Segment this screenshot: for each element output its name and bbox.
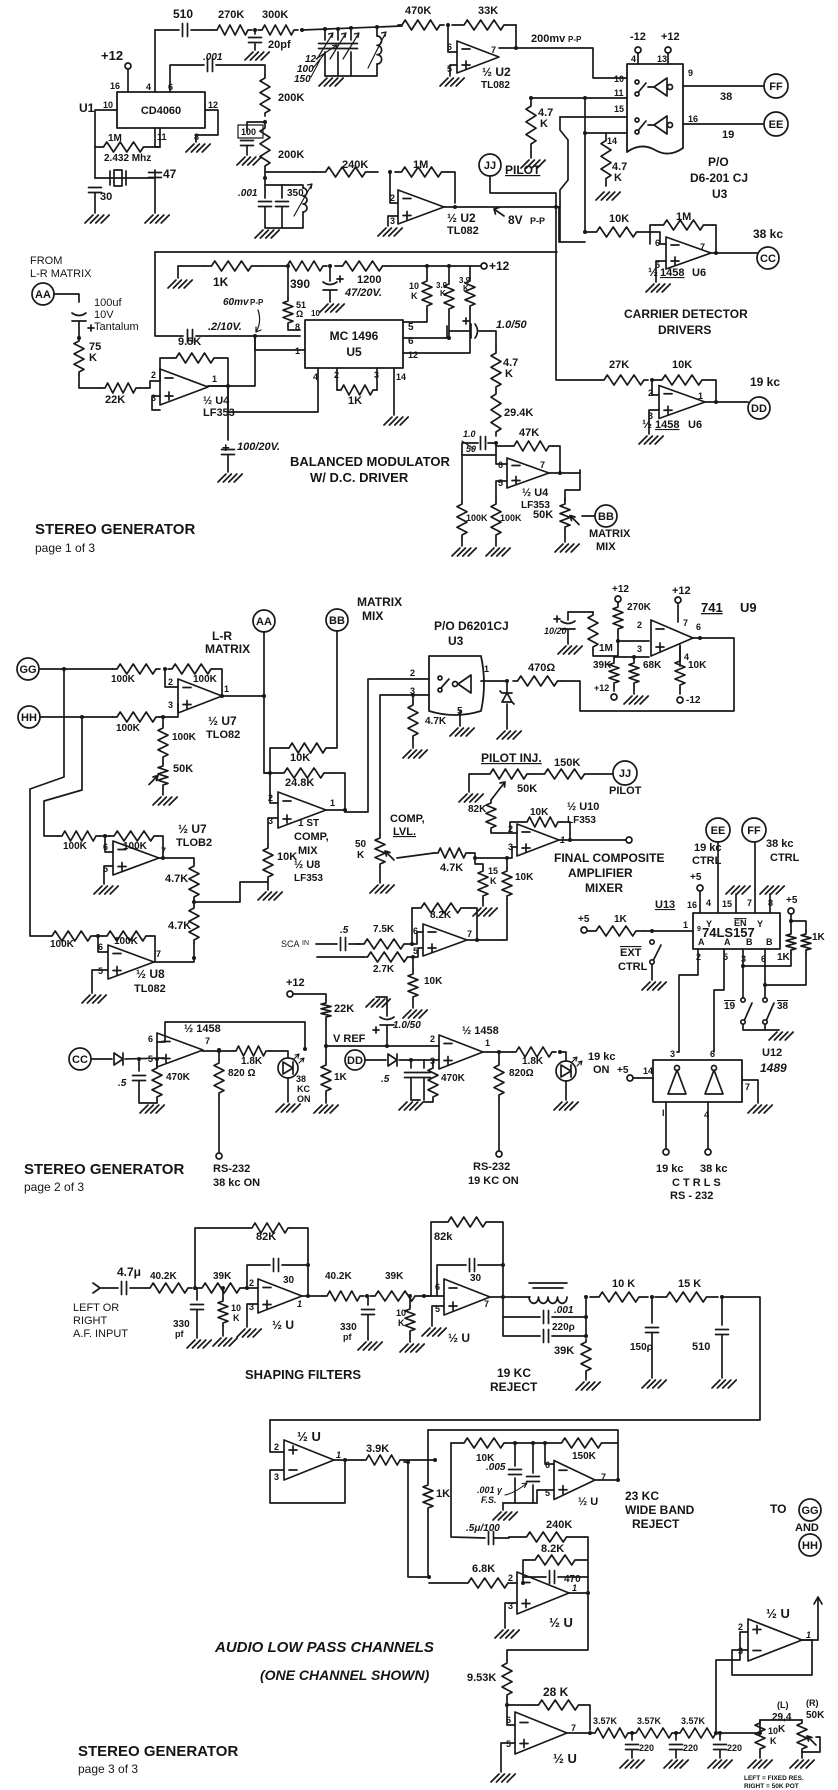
svg-text:6.8K: 6.8K <box>472 1563 495 1575</box>
svg-text:4: 4 <box>631 54 636 64</box>
trimmer inductor <box>303 188 307 212</box>
svg-text:U6: U6 <box>688 419 702 431</box>
wire B6 down <box>764 949 766 998</box>
svg-text:½: ½ <box>648 265 658 279</box>
svg-text:29.4K: 29.4K <box>504 407 533 419</box>
node <box>286 264 290 268</box>
node <box>217 1049 221 1053</box>
svg-text:40.2K: 40.2K <box>325 1271 352 1282</box>
svg-text:1.8K: 1.8K <box>241 1056 263 1067</box>
svg-text:P-P: P-P <box>568 35 582 44</box>
wire <box>705 401 748 403</box>
node <box>674 1731 678 1735</box>
node <box>77 336 81 340</box>
wire <box>461 455 463 501</box>
ground <box>145 215 169 223</box>
svg-text:47K: 47K <box>519 427 539 439</box>
resistor 150K <box>545 1438 618 1448</box>
wire <box>712 380 716 402</box>
resistor 3.57K <box>632 1728 676 1738</box>
node <box>300 28 304 32</box>
resistor 10K <box>422 278 432 309</box>
wire <box>160 704 178 717</box>
node <box>263 176 267 180</box>
capacitor .5 <box>133 1076 146 1081</box>
wire <box>282 212 303 228</box>
svg-text:200K: 200K <box>278 149 304 161</box>
wire <box>379 867 381 883</box>
svg-text:page 3 of 3: page 3 of 3 <box>78 1762 138 1776</box>
wire <box>498 1052 500 1062</box>
svg-text:page 1 of 3: page 1 of 3 <box>35 541 95 555</box>
svg-text:MATRIX: MATRIX <box>205 642 250 656</box>
svg-text:38 kc: 38 kc <box>753 227 783 241</box>
wire pin5 <box>403 309 427 322</box>
svg-text:15 K: 15 K <box>678 1278 701 1290</box>
svg-text:½ U: ½ U <box>549 1615 573 1630</box>
wire <box>265 185 282 198</box>
node <box>80 715 84 719</box>
wire <box>150 936 155 962</box>
svg-text:15: 15 <box>488 866 498 876</box>
svg-text:BB: BB <box>329 615 345 627</box>
wire wiper <box>397 853 434 858</box>
svg-text:1: 1 <box>224 684 229 694</box>
inductor <box>529 1297 567 1303</box>
svg-text:Ω: Ω <box>296 309 303 319</box>
svg-text:1: 1 <box>330 798 335 808</box>
svg-text:4.7K: 4.7K <box>440 862 463 874</box>
svg-text:2: 2 <box>168 677 173 687</box>
node <box>521 1581 525 1585</box>
node <box>497 1050 501 1054</box>
op-amp U10a <box>517 824 559 856</box>
terminal -12 <box>677 697 683 703</box>
wire <box>156 1059 158 1065</box>
resistor 820 <box>494 1062 504 1098</box>
capacitor 100uf tantalum <box>72 313 86 321</box>
svg-text:10K: 10K <box>515 872 534 883</box>
wire <box>579 470 581 473</box>
svg-text:4.7K: 4.7K <box>168 920 191 932</box>
svg-text:7.5K: 7.5K <box>373 924 395 935</box>
capacitor 20pf <box>249 38 262 43</box>
node <box>137 1057 141 1061</box>
svg-text:2.7K: 2.7K <box>373 964 395 975</box>
svg-text:K: K <box>778 1724 786 1735</box>
node <box>245 1286 249 1290</box>
wire <box>98 936 108 952</box>
node <box>409 1058 413 1062</box>
wire <box>268 818 278 845</box>
resistor 82K <box>248 1223 292 1233</box>
wire <box>329 266 331 281</box>
op-amp U10b <box>423 924 467 956</box>
svg-text:P-P: P-P <box>530 216 545 226</box>
svg-text:8: 8 <box>768 898 773 908</box>
wire <box>593 641 618 656</box>
IC U3 DG-201 partial box <box>627 64 683 154</box>
ground <box>320 304 344 312</box>
wire <box>95 935 103 937</box>
node <box>568 838 572 842</box>
svg-text:470K: 470K <box>405 5 431 17</box>
wire <box>475 858 483 868</box>
wire <box>412 695 414 702</box>
wire <box>429 1582 464 1584</box>
svg-text:EE: EE <box>711 825 726 837</box>
resistor 40.2K <box>323 1291 364 1301</box>
node <box>410 942 414 946</box>
wire <box>502 1297 504 1317</box>
wire <box>195 1288 197 1300</box>
svg-text:8V: 8V <box>508 213 523 227</box>
wire <box>759 1732 761 1734</box>
ground <box>760 886 784 894</box>
wire AA down to 24.8K <box>264 696 278 773</box>
wire <box>569 1577 588 1593</box>
node <box>193 1286 197 1290</box>
capacitor <box>418 1073 431 1078</box>
svg-text:K: K <box>505 368 513 380</box>
resistor 1K <box>337 385 377 395</box>
wire <box>329 291 331 302</box>
wire <box>503 1316 540 1318</box>
capacitor 47 <box>149 173 162 178</box>
svg-text:U5: U5 <box>346 345 362 359</box>
resistor 39K <box>581 1339 591 1374</box>
node <box>632 655 636 659</box>
svg-text:1M: 1M <box>599 643 613 654</box>
capacitor 30 <box>470 1259 475 1272</box>
arrow <box>505 1483 527 1495</box>
op-amp U6b <box>659 386 705 419</box>
wire <box>244 1287 258 1289</box>
svg-text:AA: AA <box>35 289 51 301</box>
svg-text:SCA: SCA <box>281 939 300 949</box>
wire <box>140 381 160 388</box>
wire <box>165 669 178 687</box>
svg-text:HH: HH <box>21 712 37 724</box>
trimmer capacitor 150 <box>345 44 358 49</box>
svg-text:7: 7 <box>491 45 496 55</box>
terminal +12 <box>481 263 487 269</box>
svg-text:U6: U6 <box>692 267 706 279</box>
wire <box>105 835 110 837</box>
ground <box>642 1380 666 1388</box>
svg-text:5: 5 <box>413 946 418 956</box>
capacitor 510 <box>183 24 188 37</box>
wire <box>559 839 625 841</box>
wire <box>568 611 593 613</box>
node <box>583 96 587 100</box>
svg-text:7: 7 <box>205 1036 210 1046</box>
svg-text:2: 2 <box>738 1622 743 1632</box>
node <box>714 251 718 255</box>
wire <box>560 1052 566 1061</box>
svg-text:1.0: 1.0 <box>463 429 476 439</box>
ground <box>245 52 269 60</box>
wire <box>790 914 792 931</box>
svg-text:1: 1 <box>336 1450 341 1460</box>
svg-text:WIDE BAND: WIDE BAND <box>625 1503 695 1517</box>
node <box>343 808 347 812</box>
ground <box>276 1104 300 1112</box>
wire <box>475 847 517 858</box>
svg-text:10: 10 <box>311 309 320 318</box>
node <box>365 1294 369 1298</box>
svg-text:.001 γ: .001 γ <box>477 1485 503 1495</box>
resistor 1M <box>95 142 152 152</box>
svg-text:100K: 100K <box>114 936 139 947</box>
node <box>720 1295 724 1299</box>
wire <box>427 1511 429 1577</box>
wire <box>469 266 471 278</box>
wire <box>40 716 113 718</box>
svg-text:+12: +12 <box>286 977 305 989</box>
wire <box>490 1296 530 1298</box>
svg-text:10K: 10K <box>609 213 629 225</box>
svg-text:.5: .5 <box>340 925 349 936</box>
capacitor 220P <box>544 1330 549 1343</box>
ground <box>168 280 192 288</box>
analog switch <box>438 676 442 680</box>
node EE <box>764 112 788 136</box>
node DD <box>345 1050 365 1070</box>
svg-text:50K: 50K <box>517 783 537 795</box>
wire <box>699 891 701 913</box>
resistor 1.8K <box>232 1046 270 1056</box>
wire feedback <box>270 1460 345 1503</box>
wire pin4 <box>679 647 681 666</box>
svg-text:220: 220 <box>727 1743 742 1753</box>
svg-text:MIX: MIX <box>596 541 616 553</box>
wire <box>618 632 649 641</box>
ground <box>422 1328 446 1336</box>
wire <box>412 932 423 944</box>
svg-text:22K: 22K <box>105 394 125 406</box>
svg-text:6: 6 <box>710 1049 715 1059</box>
wire <box>567 612 569 620</box>
svg-text:pf: pf <box>175 1329 184 1339</box>
svg-text:2: 2 <box>430 1034 435 1044</box>
wire <box>287 1078 289 1102</box>
wire to EE <box>683 123 763 125</box>
capacitor .001 <box>544 1311 549 1324</box>
ground <box>664 1760 688 1768</box>
resistor 470K <box>428 1065 438 1100</box>
svg-text:2: 2 <box>637 620 642 630</box>
svg-text:1: 1 <box>212 374 217 384</box>
ground <box>558 646 582 654</box>
wire pin11 stub <box>154 128 156 147</box>
svg-text:6: 6 <box>545 1460 550 1470</box>
terminal +12 <box>665 47 671 53</box>
op-amp U8b <box>108 945 154 979</box>
wire pin11 <box>531 97 627 99</box>
wire <box>258 265 283 267</box>
wire <box>557 379 600 381</box>
op-amp stage2 <box>444 1279 490 1315</box>
wire <box>637 53 639 64</box>
wire <box>413 948 423 957</box>
svg-text:7: 7 <box>700 242 705 252</box>
svg-text:(ONE CHANNEL SHOWN): (ONE CHANNEL SHOWN) <box>260 1667 430 1683</box>
wire <box>651 1333 653 1378</box>
svg-text:741: 741 <box>701 600 723 615</box>
wire pin11 <box>152 128 160 147</box>
wire <box>367 1315 369 1340</box>
svg-text:30: 30 <box>100 191 112 203</box>
wire <box>448 172 455 203</box>
wire <box>412 739 414 748</box>
svg-text:EN: EN <box>734 918 747 928</box>
resistor 3.9K <box>362 1455 404 1465</box>
capacitor .001 <box>259 202 272 207</box>
ground <box>237 157 261 165</box>
resistor 1K <box>423 1482 433 1511</box>
ground <box>153 797 177 805</box>
svg-text:P/O D6201CJ: P/O D6201CJ <box>434 619 509 633</box>
capacitor 1.0/50 <box>380 1017 394 1025</box>
svg-text:150K: 150K <box>572 1451 597 1462</box>
svg-text:STEREO GENERATOR: STEREO GENERATOR <box>35 521 195 538</box>
wire <box>324 29 326 40</box>
svg-text:.2/10V.: .2/10V. <box>208 321 242 333</box>
wire <box>507 1593 588 1660</box>
node <box>650 1295 654 1299</box>
capacitor 330pf <box>362 1310 375 1315</box>
resistor 390 <box>283 261 327 271</box>
resistor 3.57K <box>591 1728 632 1738</box>
wire <box>675 1733 677 1740</box>
wire <box>412 1000 414 1008</box>
wire <box>426 266 428 278</box>
wire <box>139 1081 157 1103</box>
svg-text:K: K <box>490 876 497 886</box>
svg-text:BALANCED MODULATOR: BALANCED MODULATOR <box>290 454 450 469</box>
svg-text:L-R: L-R <box>212 629 232 643</box>
svg-text:U3: U3 <box>448 634 464 648</box>
resistor 3.57K <box>676 1728 720 1738</box>
node <box>324 1044 328 1048</box>
svg-text:33K: 33K <box>478 5 498 17</box>
wire <box>302 26 402 30</box>
wire <box>350 52 352 76</box>
capacitor 510 <box>716 1330 729 1335</box>
svg-text:1200: 1200 <box>357 274 381 286</box>
ground <box>440 78 464 86</box>
resistor 9.5K <box>172 353 218 363</box>
svg-text:½ U: ½ U <box>766 1606 790 1621</box>
wire pin12 <box>403 309 470 353</box>
svg-text:LF353: LF353 <box>203 407 235 419</box>
resistor 24.8K <box>278 768 330 778</box>
wire <box>585 1374 587 1380</box>
wire 23kc feedback loop <box>428 1430 618 1479</box>
capacitor 470 <box>550 1571 555 1584</box>
ground <box>521 160 545 168</box>
svg-text:Tantalum: Tantalum <box>94 321 139 333</box>
wire <box>411 908 413 944</box>
svg-text:1.0/50: 1.0/50 <box>496 319 527 331</box>
fraction slash <box>462 441 474 449</box>
op-amp B <box>517 1572 569 1614</box>
wire <box>560 117 585 242</box>
svg-text:7: 7 <box>540 460 545 470</box>
svg-text:.005: .005 <box>486 1462 506 1473</box>
wire pin12 to pin8 <box>196 110 218 142</box>
resistor 1K <box>587 926 645 936</box>
wire pin4 <box>707 1102 709 1148</box>
wire <box>432 1306 444 1326</box>
wire <box>420 1295 444 1297</box>
svg-text:STEREO GENERATOR: STEREO GENERATOR <box>24 1161 184 1178</box>
svg-text:390: 390 <box>290 277 310 291</box>
resistor 10K <box>408 971 418 1000</box>
wire <box>677 603 679 622</box>
wire <box>491 831 510 833</box>
svg-text:2: 2 <box>274 1442 279 1452</box>
resistor 68K <box>629 660 639 686</box>
node <box>343 1458 347 1462</box>
svg-text:22K: 22K <box>334 1003 354 1015</box>
wire <box>94 147 96 178</box>
capacitor 100 <box>241 141 254 146</box>
svg-text:.5μ/100: .5μ/100 <box>466 1523 500 1534</box>
svg-text:+12: +12 <box>612 584 629 595</box>
svg-text:10: 10 <box>396 1308 406 1318</box>
wire <box>719 1733 721 1740</box>
svg-text:470K: 470K <box>441 1073 466 1084</box>
resistor 39K <box>609 660 619 686</box>
svg-text:REJECT: REJECT <box>490 1380 538 1394</box>
wire <box>254 30 256 34</box>
svg-text:1: 1 <box>485 1038 490 1048</box>
diode <box>388 1054 397 1066</box>
wire <box>760 1719 802 1721</box>
wire <box>138 1059 140 1071</box>
wire <box>411 1078 420 1100</box>
wire up to opampD <box>716 1632 748 1733</box>
wire <box>78 322 80 338</box>
wire <box>498 1098 500 1150</box>
node <box>155 1057 159 1061</box>
svg-text:DD: DD <box>751 403 767 415</box>
resistor 82K <box>444 1217 490 1227</box>
svg-text:1: 1 <box>295 346 300 356</box>
terminal +12 <box>287 991 293 997</box>
wire <box>267 880 269 890</box>
wire <box>617 602 619 604</box>
svg-text:+5: +5 <box>690 872 702 883</box>
wire <box>376 27 378 36</box>
node <box>505 1703 509 1707</box>
svg-text:K: K <box>89 352 97 364</box>
svg-text:39K: 39K <box>554 1345 574 1357</box>
analog switch 1 <box>635 80 639 84</box>
wire <box>95 170 155 178</box>
svg-text:6: 6 <box>435 1282 440 1292</box>
resistor 100K <box>158 725 168 760</box>
svg-text:15: 15 <box>722 899 732 909</box>
box label 100 <box>238 125 263 138</box>
resistor 10K <box>502 868 512 899</box>
svg-text:510: 510 <box>692 1341 710 1353</box>
node <box>473 856 477 860</box>
resistor 82K <box>486 800 496 831</box>
node FF <box>742 818 766 842</box>
